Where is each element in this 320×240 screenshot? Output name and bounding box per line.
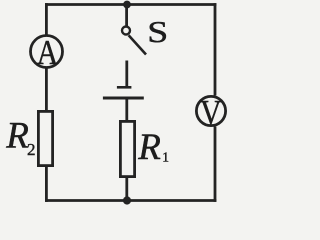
wire left: R2 to bottom corner (45, 166, 48, 202)
node: bottom junction dot (123, 196, 131, 204)
wire: middle branch, top node to switch contact (125, 5, 128, 27)
wire bottom (45, 199, 216, 202)
voltmeter V circle (196, 96, 225, 125)
resistor R1 body (120, 121, 134, 176)
wire: switch to battery (125, 61, 128, 89)
ammeter A circle (31, 36, 63, 68)
battery cell long plate (positive) (103, 97, 144, 100)
wire right: top corner to voltmeter (214, 3, 217, 95)
svg-text:R: R (137, 127, 161, 168)
switch S blade (129, 35, 146, 54)
battery cell short plate (negative) (117, 86, 131, 89)
svg-text:R: R (5, 116, 29, 157)
wire left: ammeter to R2 (45, 68, 48, 112)
svg-text:1: 1 (162, 149, 169, 164)
switch S contact circle (122, 27, 130, 35)
svg-text:S: S (147, 14, 168, 49)
wire right: voltmeter to bottom corner (214, 127, 217, 202)
node: top junction dot (123, 1, 131, 9)
resistor R2 body (38, 111, 52, 165)
svg-text:A: A (37, 33, 59, 72)
wire top (45, 3, 216, 6)
wire left: top corner to ammeter (45, 3, 48, 36)
svg-text:V: V (200, 94, 221, 132)
wire: battery to R1 (125, 98, 128, 122)
wire: R1 to bottom node (125, 177, 128, 201)
svg-text:2: 2 (27, 140, 36, 159)
